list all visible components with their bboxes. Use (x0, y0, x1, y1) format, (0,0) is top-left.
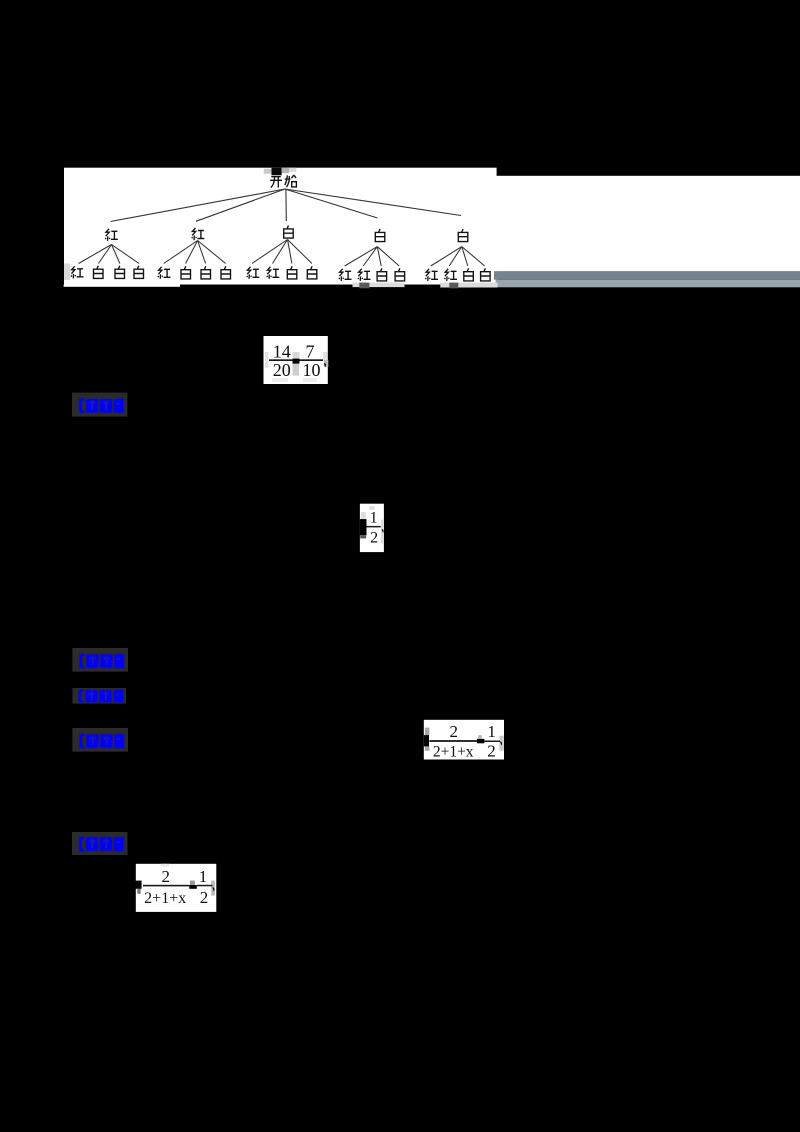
svg-text:2+1+x: 2+1+x (144, 890, 186, 907)
gray mark right of notch (282, 168, 289, 174)
light strip under leaves G5 (440, 283, 497, 288)
light gray-blue bar (496, 280, 800, 288)
node white5 白 (458, 229, 468, 242)
label jiexi box (72, 393, 127, 417)
formula2 white box (264, 336, 328, 384)
formula4 white box (360, 504, 384, 552)
svg-text:1: 1 (487, 722, 496, 741)
svg-text:10: 10 (303, 360, 321, 380)
svg-text:20: 20 (273, 360, 291, 380)
svg-text:7: 7 (306, 341, 315, 361)
tree fan white4 (345, 247, 400, 266)
gray smudge left edge of G1 (64, 264, 70, 281)
svg-text:2: 2 (487, 741, 496, 760)
dark square under G4 (359, 283, 369, 289)
label kaodian box (72, 648, 128, 672)
svg-text:14: 14 (273, 341, 291, 361)
node red2 红 (192, 228, 205, 240)
wire root->white4 (285, 189, 378, 218)
svg-text:2: 2 (370, 530, 378, 547)
node white4 白 (375, 229, 385, 242)
dark square under G5 (449, 283, 458, 289)
wire root->red1 (111, 189, 285, 222)
svg-text:1: 1 (199, 867, 208, 886)
svg-text:1: 1 (370, 510, 378, 527)
svg-text:2: 2 (200, 888, 209, 907)
label fenxi box (72, 728, 128, 752)
svg-text:2+1+x: 2+1+x (433, 743, 474, 760)
leaves group2 红白白白 (158, 266, 231, 279)
label jieda box (72, 832, 128, 855)
black notch above 开始 (272, 168, 282, 176)
svg-text:2: 2 (449, 722, 458, 741)
tree fan red1 (79, 245, 139, 264)
white panel left lower lip (64, 285, 180, 287)
leaves group4 红红白白 (339, 268, 405, 281)
white panel left (64, 168, 497, 285)
white panel right (495, 176, 800, 272)
tree fan red2 (164, 241, 226, 264)
wire root->white3 (285, 189, 287, 221)
label zhuanti box (72, 688, 126, 704)
gray-blue bar (494, 271, 800, 280)
wire root->white5 (285, 189, 461, 216)
tree lines level1 (111, 189, 462, 222)
light strip under leaves G4 (353, 283, 405, 288)
wire root->red2 (196, 189, 285, 221)
node red1 红 (105, 229, 118, 241)
tree fan white5 (431, 247, 485, 266)
node 开始 (270, 175, 296, 187)
formula7 white box (424, 720, 504, 760)
gray mark left of notch (264, 169, 272, 174)
leaves group1 红白白白 (71, 266, 144, 279)
formula9 white box (136, 864, 217, 912)
svg-text:2: 2 (162, 867, 171, 886)
leaves group3 红红白白 (247, 266, 317, 279)
node white3 白 (284, 226, 294, 239)
leaves group5 红红白白 (425, 268, 490, 281)
tree fan white3 (252, 240, 312, 264)
